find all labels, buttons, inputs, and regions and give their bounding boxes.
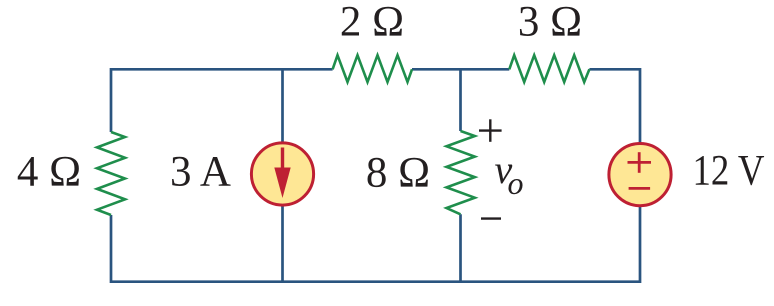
svg-text:4 Ω: 4 Ω <box>17 149 81 196</box>
svg-text:o: o <box>508 165 524 201</box>
svg-text:3 A: 3 A <box>170 149 231 196</box>
svg-text:3 Ω: 3 Ω <box>518 0 582 46</box>
svg-text:2 Ω: 2 Ω <box>340 0 404 46</box>
svg-text:12 V: 12 V <box>693 148 765 195</box>
svg-text:8 Ω: 8 Ω <box>366 150 430 197</box>
